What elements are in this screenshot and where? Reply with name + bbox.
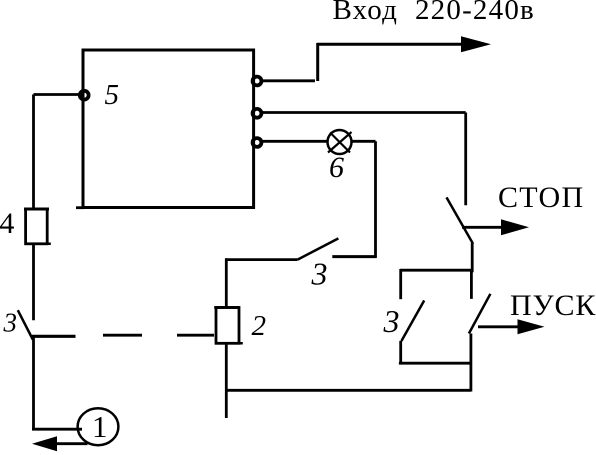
dashed link segment 1 — [103, 334, 142, 337]
wire PUSK loop top — [400, 269, 472, 272]
wire pin2 drop to STOP switch — [464, 113, 467, 206]
terminal pin 1 (right top) — [253, 77, 262, 86]
svg-text:Вход 220-240в: Вход 220-240в — [333, 0, 535, 26]
wire left vertical lower — [32, 336, 35, 430]
svg-text:ПУСК: ПУСК — [510, 289, 596, 322]
wire right vertical to bottom — [469, 334, 472, 392]
wire pin1 to riser — [262, 79, 315, 82]
wire lamp to right — [352, 140, 376, 143]
switch PUSK blade — [469, 294, 491, 334]
input arrowhead — [461, 36, 491, 52]
wire input arrow riser — [316, 43, 319, 81]
output arrowhead (bottom left) — [32, 436, 57, 451]
dashed link segment 2 — [177, 334, 214, 337]
resistor R4 — [24, 209, 51, 244]
wire lamp drop — [374, 141, 377, 257]
resistor R2 — [214, 308, 243, 344]
wire pin2 horizontal — [262, 111, 466, 114]
box bottom-left overshoot — [76, 206, 84, 209]
lamp HL6 — [328, 130, 352, 154]
switch S3 middle blade — [298, 238, 339, 259]
PUSK arrow line — [478, 325, 522, 328]
wire input arrow line — [317, 43, 466, 46]
svg-text:СТОП: СТОП — [498, 181, 584, 214]
svg-text:6: 6 — [329, 151, 344, 184]
wire right vertical below STOP — [470, 243, 474, 299]
wire pin3 to lamp — [262, 140, 328, 143]
wire PUSK loop left lower — [399, 341, 402, 365]
output arrow line (bottom) — [52, 442, 88, 445]
switch S3 left blade — [18, 310, 33, 339]
wire left vertical upper — [32, 95, 35, 210]
svg-text:2: 2 — [252, 310, 267, 342]
wire below R2 — [225, 343, 228, 418]
svg-text:5: 5 — [105, 79, 120, 111]
switch STOP blade — [447, 197, 474, 243]
wire R4 to switch — [32, 244, 35, 320]
switch S3 left contact bar — [32, 335, 76, 338]
wire middle vertical above R2 — [225, 258, 228, 307]
wire pin5 to left — [34, 93, 85, 96]
wire PUSK loop bottom — [399, 362, 471, 365]
motor M1 circle — [78, 408, 119, 445]
svg-text:3: 3 — [311, 256, 328, 292]
terminal pin 5 (left) — [80, 91, 89, 100]
svg-text:3: 3 — [3, 308, 18, 338]
wire middle switch left horizontal — [225, 258, 297, 261]
svg-text:4: 4 — [0, 207, 14, 240]
switch S3 middle right contact bar — [332, 255, 376, 258]
switch S3 aux blade (loop) — [401, 301, 424, 342]
terminal pin 3 (right bottom) — [253, 138, 262, 147]
svg-text:3: 3 — [383, 303, 400, 339]
PUSK arrowhead — [518, 319, 545, 334]
svg-text:1: 1 — [92, 409, 108, 444]
wire to motor circle — [32, 428, 82, 431]
wire long bottom horizontal — [225, 389, 471, 392]
wire PUSK loop left upper — [399, 269, 402, 299]
terminal pin 2 (right middle) — [253, 109, 262, 118]
relay box U5 — [83, 50, 254, 208]
STOP arrowhead — [501, 219, 529, 235]
STOP arrow line — [462, 226, 505, 229]
